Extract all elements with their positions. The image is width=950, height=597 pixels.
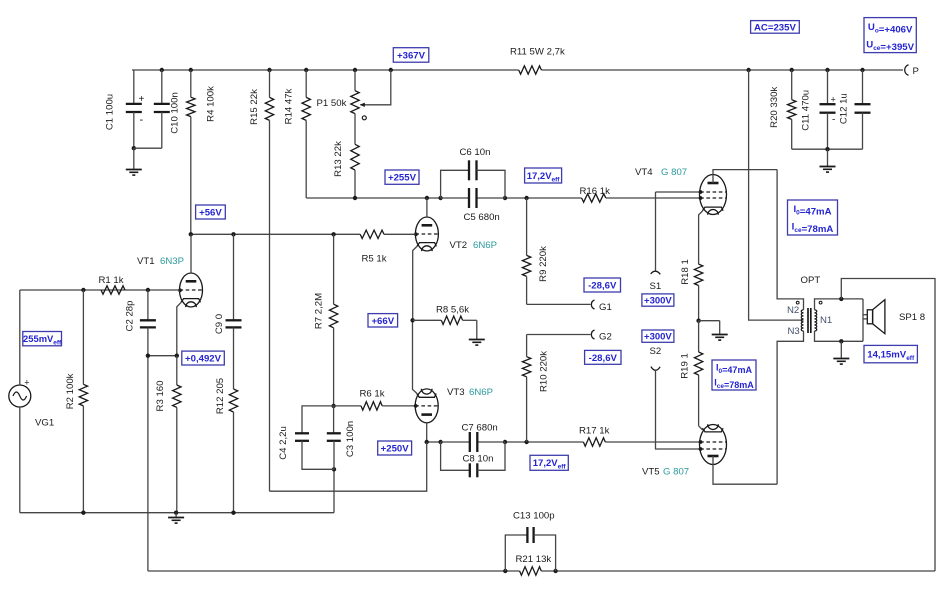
svg-text:SP1 8: SP1 8	[899, 312, 925, 323]
capacitor C7	[441, 423, 505, 452]
ground at C11	[820, 149, 836, 172]
ground at VT4 cathode	[699, 321, 728, 340]
svg-text:VG1: VG1	[35, 418, 54, 429]
svg-text:AC=235V: AC=235V	[754, 22, 796, 33]
capacitor C4	[278, 406, 334, 469]
terminal S2	[650, 346, 700, 449]
svg-text:C8 10n: C8 10n	[463, 454, 494, 465]
resistor R11	[510, 47, 565, 75]
svg-text:+: +	[139, 94, 145, 105]
tube VT4 G807	[635, 167, 777, 215]
node label 14,15mVeff	[864, 345, 917, 362]
svg-text:VT1: VT1	[137, 256, 155, 267]
svg-text:OPT: OPT	[801, 275, 821, 286]
capacitor C10	[134, 70, 181, 148]
svg-text:VT4: VT4	[635, 167, 653, 178]
terminal G2	[591, 330, 611, 343]
capacitor C8	[441, 442, 505, 477]
node label +300V (S1)	[642, 294, 674, 307]
junction dots ground bus	[81, 511, 236, 515]
svg-text:R8 5,6k: R8 5,6k	[436, 305, 469, 316]
wire PSU filter bottom	[792, 148, 863, 150]
svg-text:R9 220k: R9 220k	[538, 246, 549, 282]
capacitor C9	[214, 234, 242, 389]
capacitor C12	[838, 70, 870, 149]
svg-text:+: +	[831, 94, 836, 104]
wire +56V node	[191, 233, 334, 235]
node label 17,2Veff (upper)	[525, 168, 562, 183]
svg-text:C11 470u: C11 470u	[800, 90, 811, 131]
svg-text:+300V: +300V	[644, 332, 672, 343]
svg-text:VT3: VT3	[447, 387, 465, 398]
junction dots OPT secondary	[839, 297, 843, 344]
resistor R13	[333, 114, 359, 198]
junction dot VT4 cathode node	[696, 319, 700, 323]
resistor R6	[334, 388, 416, 410]
wire VT1 cathode node	[148, 355, 177, 357]
svg-text:-28,6V: -28,6V	[588, 280, 617, 291]
wire VT1 cathode	[177, 302, 181, 355]
svg-text:C6 10n: C6 10n	[460, 147, 491, 158]
junction dots cathode node	[146, 354, 179, 358]
svg-text:VT5: VT5	[642, 467, 660, 478]
svg-text:P1 50k: P1 50k	[317, 98, 347, 109]
svg-text:C9 0: C9 0	[214, 314, 225, 334]
svg-text:6N3P: 6N3P	[160, 256, 184, 267]
tube VT3 6N6P	[415, 387, 493, 442]
svg-text:+0,492V: +0,492V	[185, 354, 222, 365]
svg-text:S2: S2	[650, 346, 662, 357]
node label I0/Ice (VT5)	[712, 360, 756, 390]
resistor R5	[334, 230, 416, 264]
svg-text:C7 680n: C7 680n	[462, 423, 498, 434]
ground symbol on bus	[168, 513, 184, 523]
junction dots input wire	[81, 288, 150, 292]
svg-text:G 807: G 807	[663, 467, 689, 478]
wire secondary to feedback line	[841, 279, 935, 572]
capacitor C1	[105, 70, 145, 148]
junction dots on supply rail	[160, 68, 865, 72]
tube VT1 6N3P	[137, 234, 203, 307]
svg-text:R11 5W 2,7k: R11 5W 2,7k	[510, 47, 565, 58]
resistor R1	[99, 275, 126, 294]
capacitor C13	[505, 511, 555, 571]
svg-text:R6 1k: R6 1k	[360, 388, 385, 399]
svg-text:N3: N3	[788, 326, 800, 337]
wire C2 feedback drop	[147, 356, 149, 571]
node label -28,6V (G2)	[585, 350, 621, 364]
svg-text:G1: G1	[599, 302, 612, 313]
junction dots VT3 anode node	[425, 440, 529, 444]
resistor R17	[579, 425, 610, 446]
node label +56V	[196, 205, 226, 219]
node label -28,6V (G1)	[584, 278, 621, 292]
svg-text:R15 22k: R15 22k	[249, 89, 260, 125]
tube VT2 6N6P	[415, 198, 497, 251]
node label 255mVeff	[23, 332, 62, 347]
svg-text:+300V: +300V	[644, 295, 672, 306]
ground at C1	[126, 148, 142, 175]
node label +255V	[385, 170, 419, 184]
wire VT3 anode node	[427, 441, 700, 443]
svg-text:R1 1k: R1 1k	[99, 275, 124, 286]
wire +255V node	[306, 197, 699, 199]
svg-text:-: -	[832, 115, 835, 126]
node label Uo/Uce	[864, 18, 916, 53]
transformer OPT primary N2/N3	[777, 170, 820, 485]
capacitor C6	[441, 147, 505, 198]
source VG1	[9, 290, 54, 513]
wire +367V/P supply rail	[132, 69, 903, 71]
svg-text:I0=47mA: I0=47mA	[716, 363, 752, 376]
node label I0/Ice (VT4)	[788, 200, 838, 235]
wire to terminal G1	[527, 303, 591, 305]
svg-text:G 807: G 807	[661, 167, 687, 178]
capacitor C2	[125, 290, 156, 356]
capacitor C3	[327, 406, 356, 469]
node label +367V	[393, 48, 429, 63]
svg-text:C2 28p: C2 28p	[125, 301, 136, 332]
svg-text:+367V: +367V	[397, 50, 426, 61]
resistor R12	[215, 378, 238, 513]
potentiometer P1	[317, 70, 391, 120]
wire feedback line	[148, 570, 935, 572]
node label +0,492V	[182, 351, 225, 365]
svg-text:R3 160: R3 160	[155, 381, 166, 412]
svg-text:VT2: VT2	[450, 240, 468, 251]
wire ground bus	[20, 469, 334, 512]
svg-text:+250V: +250V	[381, 443, 410, 454]
transformer OPT core	[808, 308, 811, 333]
svg-text:C4 2,2u: C4 2,2u	[278, 426, 289, 460]
svg-text:R16 1k: R16 1k	[580, 186, 611, 197]
svg-text:+66V: +66V	[371, 316, 394, 327]
ground at R8	[469, 320, 485, 345]
junction C1/C10 bottom	[132, 146, 136, 150]
svg-text:R4 100k: R4 100k	[206, 86, 217, 122]
svg-text:+: +	[24, 378, 29, 388]
junction dots +255V node	[353, 196, 529, 200]
svg-text:I0=47mA: I0=47mA	[793, 204, 831, 218]
wire VT3 cathode	[413, 320, 418, 393]
junction dot VT2 grid	[414, 232, 418, 236]
svg-text:R20 330k: R20 330k	[769, 87, 780, 128]
node label 17,2Veff (lower)	[530, 455, 568, 470]
wire input to VT1 grid	[20, 289, 180, 291]
svg-text:R12 205: R12 205	[215, 378, 226, 414]
resistor R19	[680, 321, 703, 426]
junction dot VT3 grid	[414, 404, 418, 408]
svg-text:R2 100k: R2 100k	[65, 373, 76, 409]
tube VT5 G807	[642, 424, 777, 484]
node label +300V (S2)	[642, 330, 674, 343]
junction dots R6 node	[331, 404, 336, 472]
resistor R16	[580, 186, 611, 202]
svg-text:R19 1: R19 1	[680, 353, 691, 379]
resistor R15	[249, 70, 274, 491]
svg-text:-28,6V: -28,6V	[589, 353, 618, 364]
resistor R21	[516, 554, 552, 575]
junction dot VT1 grid	[178, 288, 182, 292]
resistor R7	[314, 234, 338, 406]
svg-text:6N6P: 6N6P	[469, 387, 493, 398]
resistor R10	[522, 335, 549, 443]
capacitor C5	[441, 188, 505, 223]
junction dots +56V node	[189, 232, 336, 236]
resistor R18	[680, 259, 703, 321]
junction dots feedback line	[503, 569, 558, 573]
svg-text:R5 1k: R5 1k	[362, 253, 387, 264]
junction dot PSU filter	[825, 147, 829, 151]
svg-text:C1 100u: C1 100u	[105, 94, 116, 130]
svg-text:+255V: +255V	[388, 173, 417, 184]
svg-text:R7 2,2M: R7 2,2M	[314, 293, 325, 329]
resistor R9	[522, 198, 549, 304]
svg-text:-: -	[140, 114, 144, 126]
node label +66V	[368, 314, 398, 327]
wire VT4 cathode	[699, 211, 703, 264]
svg-text:6N6P: 6N6P	[473, 240, 497, 251]
junction dots VT4 grids	[699, 190, 703, 200]
wire VT5 cathode	[699, 426, 703, 430]
resistor R8	[413, 305, 477, 325]
capacitor C11	[800, 70, 835, 149]
terminal P	[905, 65, 919, 78]
wire R15 to VT3 anode	[270, 442, 427, 491]
resistor R14	[284, 70, 311, 198]
svg-text:S1: S1	[650, 281, 662, 292]
svg-text:R14 47k: R14 47k	[284, 88, 295, 124]
svg-text:C3 100n: C3 100n	[345, 421, 356, 457]
svg-text:R13 22k: R13 22k	[333, 141, 344, 177]
svg-text:R18 1: R18 1	[680, 259, 691, 285]
resistor R4	[187, 70, 217, 234]
svg-text:Uo=+406V: Uo=+406V	[868, 22, 913, 36]
svg-text:C13 100p: C13 100p	[513, 511, 555, 522]
node label +250V	[378, 441, 412, 455]
svg-text:+56V: +56V	[199, 207, 222, 218]
node label AC=235V	[751, 21, 800, 34]
transformer OPT secondary N1	[815, 299, 864, 341]
resistor R20	[769, 70, 796, 149]
svg-text:N2: N2	[787, 305, 799, 316]
terminal S1	[650, 192, 662, 292]
svg-text:N1: N1	[820, 315, 832, 326]
wire to terminal G2	[527, 334, 591, 336]
svg-text:R17 1k: R17 1k	[579, 425, 610, 436]
ground at OPT secondary	[833, 341, 849, 364]
resistor R3	[155, 356, 181, 513]
wire rail to OPT center tap	[749, 70, 804, 320]
junction dots VT5 grids	[699, 440, 703, 451]
speaker SP1	[863, 300, 925, 334]
svg-text:R10 220k: R10 220k	[539, 351, 550, 392]
resistor R2	[65, 290, 88, 513]
svg-text:C12 1u: C12 1u	[838, 93, 849, 124]
svg-text:C5 680n: C5 680n	[464, 212, 500, 223]
svg-text:G2: G2	[599, 332, 612, 343]
junction dot +66V node	[410, 318, 414, 322]
svg-text:P: P	[913, 66, 919, 77]
svg-text:R21 13k: R21 13k	[516, 554, 552, 565]
wire VT2 cathode	[413, 246, 417, 320]
terminal G1	[591, 300, 611, 313]
svg-text:C10 100n: C10 100n	[170, 92, 181, 134]
